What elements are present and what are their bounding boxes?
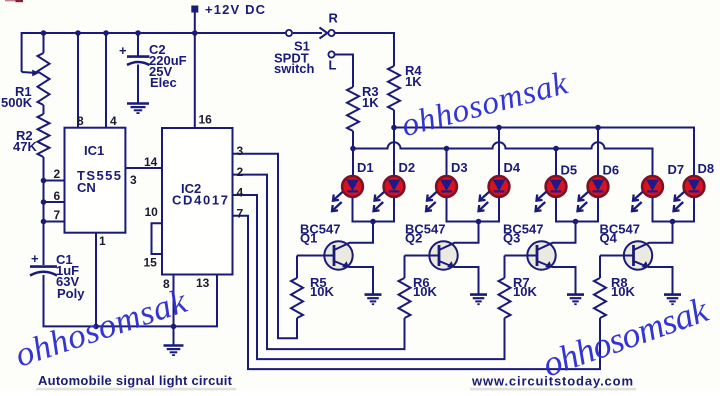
wire: R3 to second LED bus [352, 131, 354, 176]
svg-text:10K: 10K [513, 284, 537, 299]
node: rail junctions [41, 30, 47, 36]
wire: R1-R2 link [43, 105, 45, 114]
svg-text:D2: D2 [399, 160, 416, 175]
wire: R contact to R4 [335, 33, 394, 66]
svg-text:3: 3 [237, 144, 244, 158]
pin 10-15 reset loop [152, 223, 163, 254]
wire: D4 drop [498, 128, 500, 177]
svg-text:4: 4 [237, 186, 244, 200]
wire: IC1 pin8 stub [77, 33, 79, 128]
resistor R5 10K [291, 275, 334, 318]
svg-text:47K: 47K [13, 139, 37, 154]
ground: C2 [127, 102, 149, 105]
svg-text:10: 10 [145, 205, 159, 219]
wire: D6 drop [597, 128, 599, 177]
LED D5 [536, 163, 578, 212]
svg-text:15: 15 [144, 256, 158, 270]
wire: stub IC1 pin6 [44, 201, 65, 203]
wire: left column down to C1 [43, 157, 45, 265]
svg-text:+: + [31, 251, 39, 266]
wire: cathode junction of LED pair [556, 198, 598, 222]
resistor R8 10K [594, 275, 635, 318]
capacitor C1 1uF 63V Poly [30, 251, 85, 301]
jpeg ghost band bottom [36, 388, 236, 391]
svg-text:Q3: Q3 [503, 231, 520, 246]
svg-text:L: L [329, 58, 337, 73]
svg-text:Poly: Poly [57, 286, 85, 301]
svg-text:7: 7 [54, 208, 61, 222]
resistor R2 47K [13, 114, 50, 157]
wire: C1 bottom to ground rail [44, 275, 218, 326]
svg-text:D7: D7 [668, 162, 685, 177]
svg-text:D8: D8 [698, 161, 715, 176]
crop artifact red dash top-left [5, 0, 23, 2]
LED D4 [479, 160, 521, 211]
resistor R3 1K [347, 84, 379, 131]
svg-text:10K: 10K [310, 284, 334, 299]
ground: main [164, 344, 184, 347]
wire: cathode junction of LED pair [353, 198, 395, 222]
svg-text:500K: 500K [1, 95, 33, 110]
transistor Q1 BC547 [297, 222, 382, 305]
svg-text:D3: D3 [451, 160, 468, 175]
wire: IC2 pin 2 output to base resistor [233, 175, 405, 350]
LED D2 [374, 160, 416, 211]
svg-text:Q2: Q2 [405, 231, 422, 246]
resistor R4 1K [388, 63, 422, 110]
svg-text:2: 2 [54, 167, 61, 181]
wire: IC2 pin 4 output to base resistor [233, 195, 505, 359]
counter IC2 CD4017 [162, 128, 233, 275]
LED D7 [632, 162, 684, 211]
svg-text:+12V DC: +12V DC [205, 2, 266, 17]
switch S1 SPDT [274, 11, 339, 77]
transistor Q4 BC547 [600, 222, 681, 305]
svg-text:4: 4 [110, 114, 117, 128]
svg-text:D5: D5 [561, 163, 578, 178]
resistor R7 10K [499, 275, 538, 318]
wire: IC2 pin8 stub + ground lead [173, 275, 175, 347]
node: IC1 pin1 junction [93, 324, 99, 330]
svg-text:1: 1 [99, 234, 106, 248]
LED D8 [674, 161, 715, 211]
svg-text:switch: switch [274, 61, 315, 76]
svg-text:Q4: Q4 [600, 231, 618, 246]
svg-text:Elec: Elec [150, 75, 177, 90]
wire: cathode junction of LED pair [653, 198, 695, 222]
svg-text:D4: D4 [504, 160, 521, 175]
resistor R1 500K (pot) [1, 33, 50, 110]
LED D6 [578, 163, 620, 212]
svg-text:10K: 10K [413, 284, 437, 299]
capacitor C2 220uF 25V Elec [119, 33, 187, 104]
wire: L contact to R3 [335, 55, 353, 88]
svg-text:Q1: Q1 [300, 231, 317, 246]
svg-text:D1: D1 [357, 160, 374, 175]
wire: D5 drop [555, 149, 557, 177]
svg-text:7: 7 [237, 206, 244, 220]
svg-text:3: 3 [130, 173, 137, 187]
svg-text:8: 8 [77, 114, 84, 128]
svg-text:1K: 1K [405, 74, 422, 89]
wire: R1 wiper arrow [22, 71, 34, 74]
wire: stub IC1 pin2 [44, 180, 65, 182]
svg-text:1K: 1K [362, 95, 379, 110]
svg-text:6: 6 [54, 189, 61, 203]
wire: +12V top rail [22, 33, 286, 72]
transistor Q3 BC547 [505, 222, 585, 305]
svg-text:D6: D6 [603, 163, 620, 178]
wire: IC1 pin4 stub [105, 33, 107, 128]
wire: D3 drop [446, 149, 448, 177]
wire: IC2 pin 3 output to base resistor [233, 154, 298, 339]
wire: top LED bus (right side D2 D4 D6 D8) [394, 128, 694, 177]
svg-text:R: R [329, 11, 339, 26]
wire: IC1 pin3 to IC2 pin14 [125, 167, 162, 169]
wire: cathode junction of LED pair [447, 198, 500, 222]
svg-text:CN: CN [77, 180, 96, 195]
node: IC2 pin8 junction [171, 324, 177, 330]
svg-text:16: 16 [199, 113, 213, 127]
svg-text:2: 2 [237, 165, 244, 179]
svg-text:IC1: IC1 [84, 143, 104, 158]
wire: second LED bus (left side D1 D3 D5 D7) with hops [353, 142, 653, 176]
wire: R4 to top LED bus [393, 110, 395, 176]
transistor Q2 BC547 [405, 222, 488, 305]
wire: IC2 pin 7 output to base resistor [233, 216, 601, 369]
svg-text:14: 14 [144, 155, 158, 169]
resistor R6 10K [399, 275, 438, 318]
wire: stub IC1 pin7 [44, 221, 65, 223]
svg-text:+: + [119, 43, 127, 58]
wire: IC1 pin1 stub [95, 233, 97, 327]
LED D3 [426, 160, 468, 211]
svg-text:13: 13 [196, 276, 210, 290]
LED D1 [332, 160, 374, 211]
svg-text:Automobile signal light circui: Automobile signal light circuit [38, 373, 233, 388]
op-amp/timer IC1 TS555 [65, 128, 126, 233]
+12V DC supply [191, 2, 265, 128]
svg-text:10K: 10K [611, 284, 635, 299]
